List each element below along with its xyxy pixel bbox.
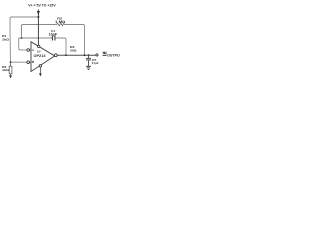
- svg-text:1/2: 1/2: [37, 50, 41, 54]
- svg-text:50Ω: 50Ω: [70, 48, 77, 52]
- svg-text:1kΩ: 1kΩ: [2, 68, 10, 72]
- svg-text:OUTPUT: OUTPUT: [107, 53, 120, 57]
- svg-text:OP213: OP213: [34, 54, 46, 58]
- svg-text:1kΩ: 1kΩ: [2, 37, 10, 41]
- svg-text:V+ = 5V TO +15V: V+ = 5V TO +15V: [28, 3, 56, 7]
- svg-text:10pF: 10pF: [49, 32, 58, 36]
- svg-text:1 MΩ: 1 MΩ: [55, 20, 66, 24]
- svg-text:0.1µF: 0.1µF: [92, 61, 99, 65]
